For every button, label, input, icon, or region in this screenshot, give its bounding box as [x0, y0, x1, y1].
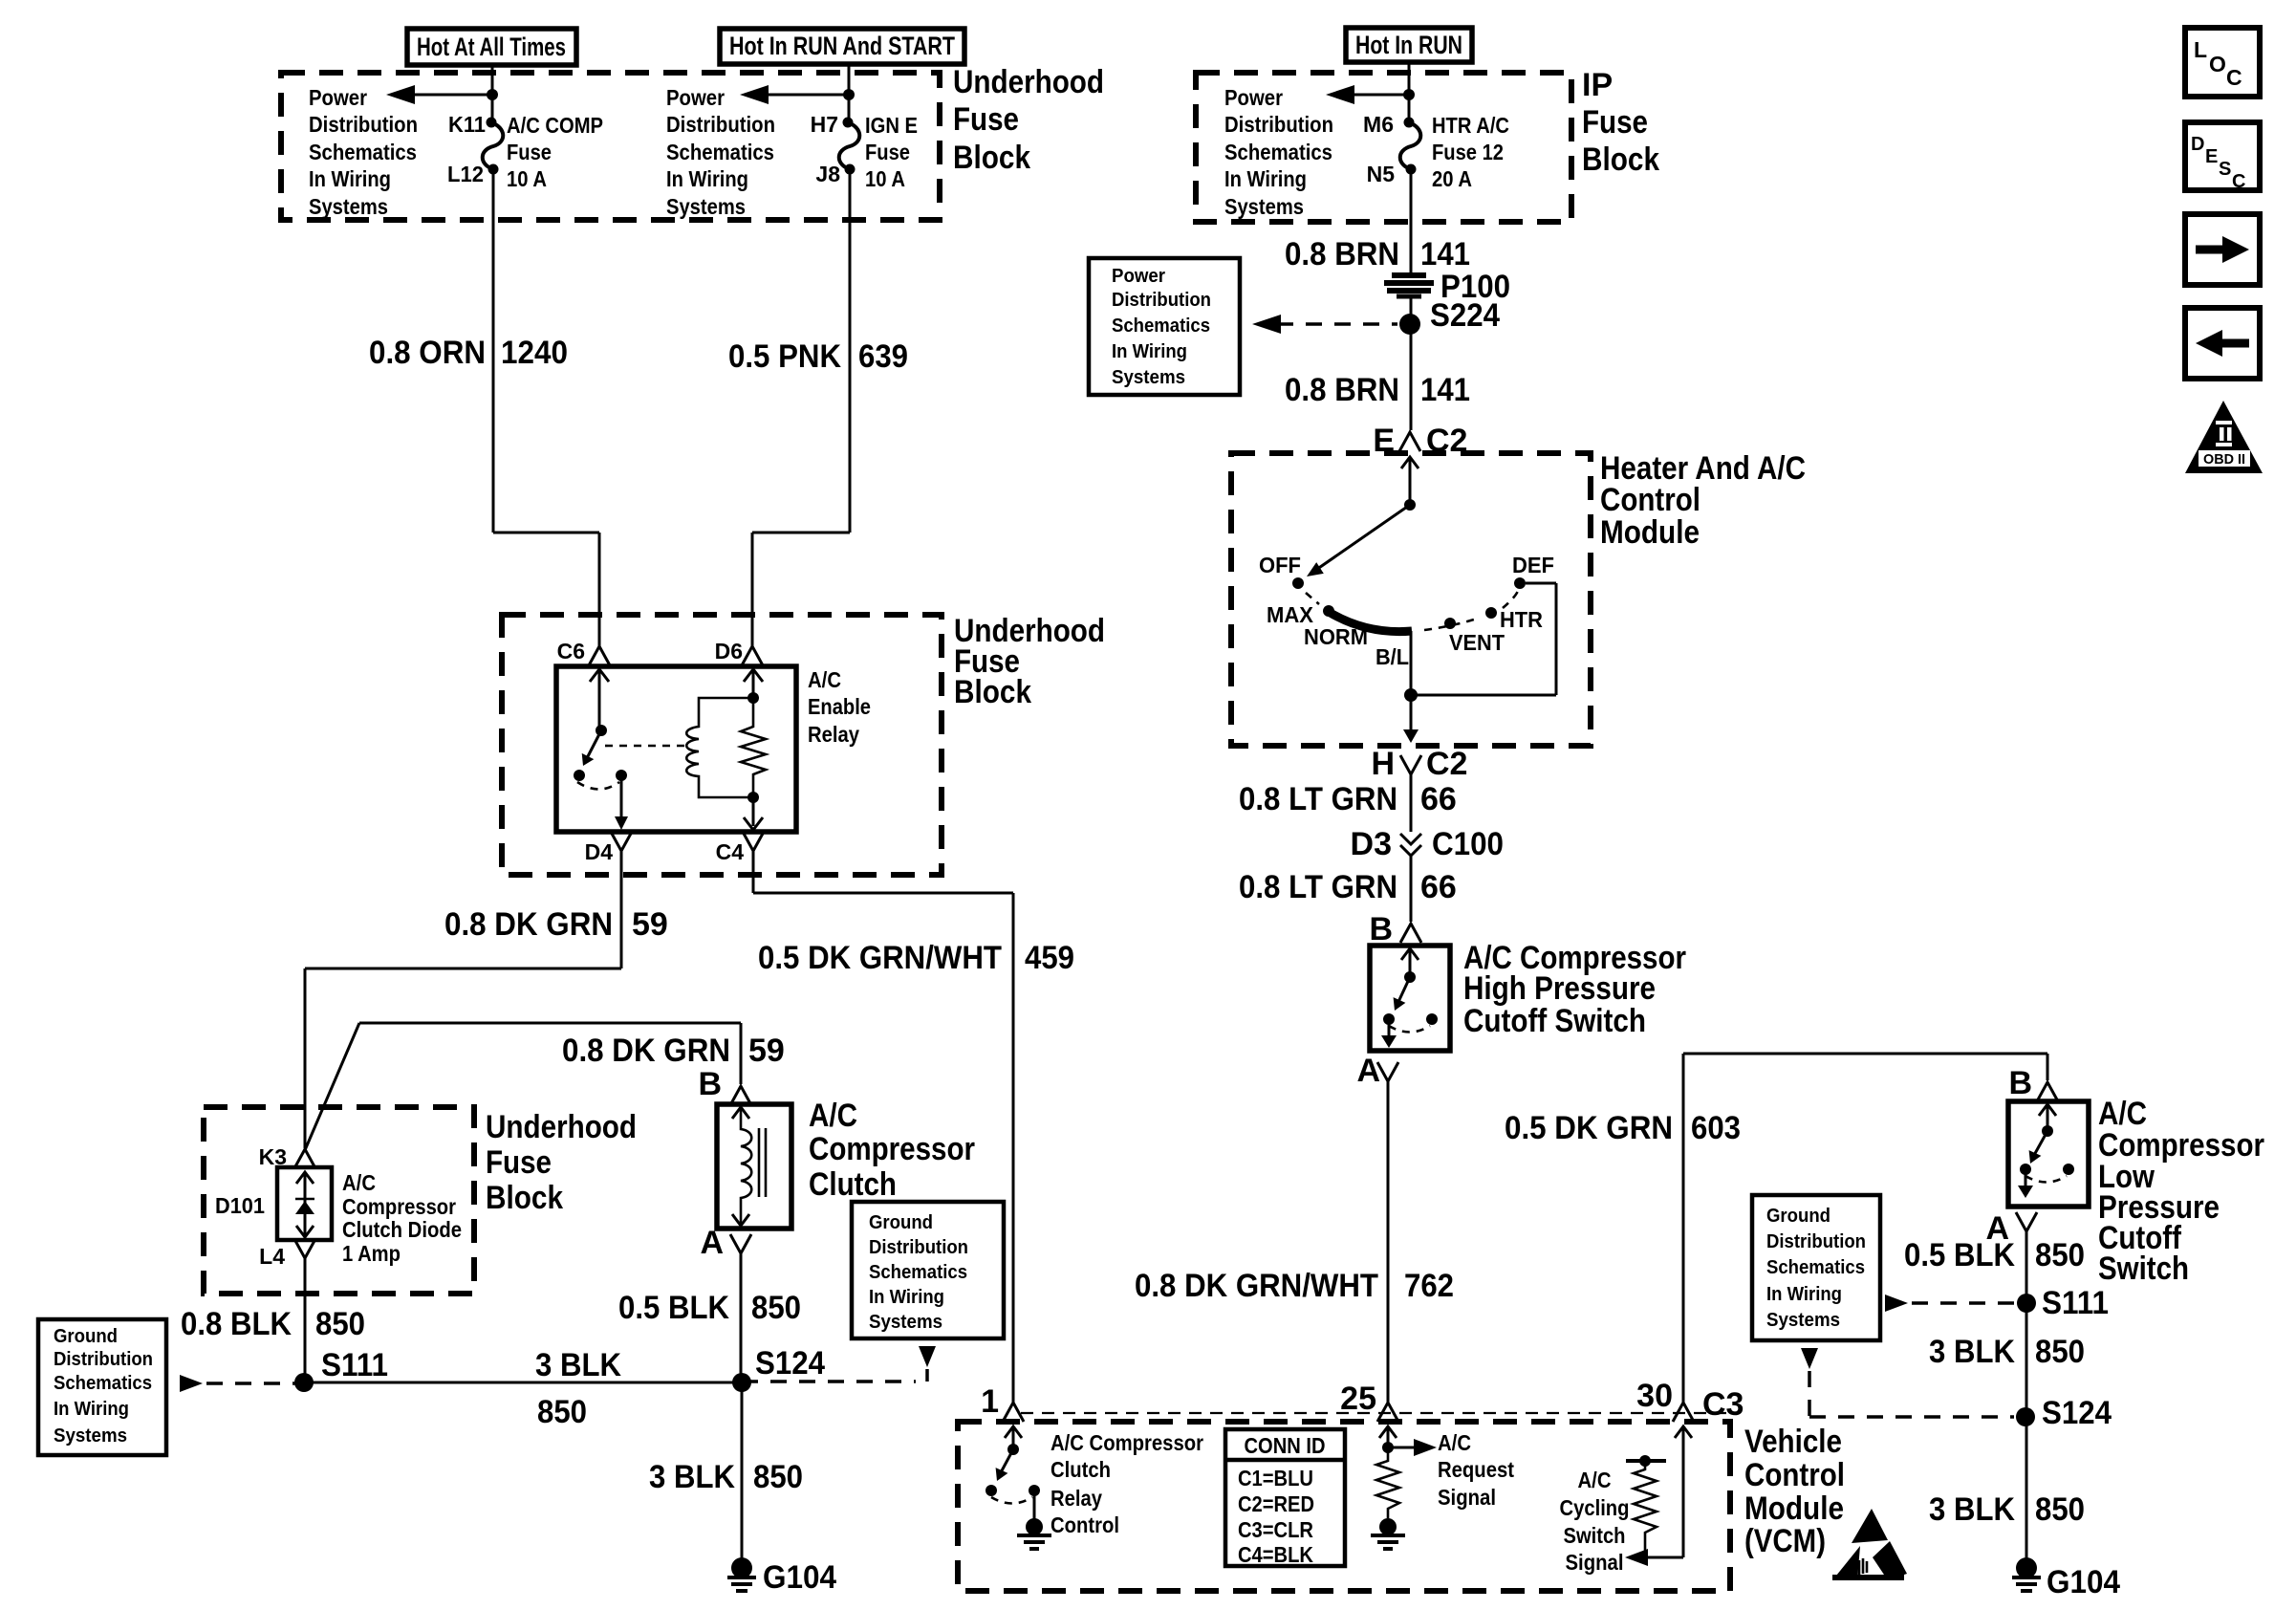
ground distribution box (right)	[1752, 1195, 1880, 1340]
svg-text:Systems: Systems	[1766, 1310, 1840, 1331]
svg-text:0.5 PNK: 0.5 PNK	[728, 338, 841, 375]
svg-text:In Wiring: In Wiring	[1112, 341, 1187, 362]
relay switch contact right	[616, 770, 627, 781]
svg-text:603: 603	[1691, 1110, 1741, 1146]
svg-text:C100: C100	[1432, 826, 1504, 862]
svg-text:In Wiring: In Wiring	[54, 1399, 129, 1420]
VCM A/C request input	[1379, 1426, 1397, 1438]
svg-text:In Wiring: In Wiring	[1224, 166, 1307, 191]
fuse HTR A/C pin M6	[1404, 118, 1415, 128]
wire 0.8 DK GRN/WHT 762 to VCM pin 25	[1387, 1081, 1390, 1403]
connector D4	[611, 832, 632, 851]
VCM connector row dashed line	[1021, 1412, 1726, 1414]
low pressure switch contacts	[2020, 1164, 2031, 1175]
VCM pin 30 C3	[1673, 1403, 1694, 1422]
fuse HTR A/C element	[1400, 122, 1421, 169]
low pressure cutoff switch box	[2008, 1101, 2089, 1207]
svg-text:850: 850	[2035, 1237, 2085, 1273]
svg-text:J8: J8	[815, 162, 840, 186]
svg-text:Fuse: Fuse	[486, 1144, 552, 1181]
svg-text:0.8 DK GRN: 0.8 DK GRN	[444, 906, 613, 943]
connector C6	[589, 646, 610, 665]
svg-text:Compressor: Compressor	[809, 1131, 975, 1167]
svg-text:0.8 LT GRN: 0.8 LT GRN	[1239, 781, 1397, 817]
svg-text:0.8 BRN: 0.8 BRN	[1285, 236, 1399, 272]
svg-text:G104: G104	[763, 1559, 836, 1596]
svg-text:G104: G104	[2047, 1564, 2120, 1600]
svg-text:0.8 BLK: 0.8 BLK	[181, 1306, 292, 1342]
ESD warning triangle	[1852, 1509, 1888, 1543]
svg-text:1 Amp: 1 Amp	[342, 1241, 401, 1266]
grommet P100	[1392, 272, 1426, 278]
svg-text:Request: Request	[1438, 1457, 1514, 1482]
low pressure switch dashed arc	[2025, 1176, 2067, 1183]
VCM pin 30 wire	[1675, 1426, 1692, 1438]
icon OBD II triangle	[2185, 401, 2263, 473]
svg-text:0.8 ORN: 0.8 ORN	[369, 335, 486, 371]
svg-text:Schematics: Schematics	[869, 1262, 967, 1283]
svg-text:B: B	[698, 1066, 722, 1102]
high pressure switch dashed arc	[1389, 1026, 1430, 1033]
underhood fuse block dashed box	[281, 73, 940, 220]
svg-text:Block: Block	[486, 1180, 563, 1216]
svg-text:25: 25	[1340, 1381, 1376, 1417]
splice S124 (right)	[2016, 1407, 2035, 1426]
svg-text:0.8 BRN: 0.8 BRN	[1285, 372, 1399, 408]
svg-text:Control: Control	[1051, 1512, 1119, 1537]
connector E C2	[1399, 432, 1420, 451]
svg-text:Schematics: Schematics	[54, 1373, 152, 1394]
svg-text:Ground: Ground	[54, 1326, 118, 1347]
svg-text:IP: IP	[1582, 67, 1613, 103]
relay output to C4	[752, 797, 755, 826]
svg-text:Schematics: Schematics	[1112, 315, 1210, 337]
clutch core bars	[758, 1128, 761, 1197]
mode dashed arc	[1306, 593, 1319, 604]
connector A (low pressure switch)	[2016, 1212, 2037, 1231]
svg-text:E: E	[2205, 146, 2218, 167]
svg-text:762: 762	[1404, 1268, 1454, 1304]
svg-text:A/C: A/C	[1578, 1468, 1612, 1492]
label box Hot In RUN And START	[720, 29, 964, 64]
svg-text:Ground: Ground	[1766, 1206, 1830, 1227]
label box Hot At All Times	[407, 29, 576, 65]
svg-text:141: 141	[1420, 372, 1470, 408]
connector C4	[743, 832, 764, 851]
svg-text:Fuse: Fuse	[953, 101, 1019, 138]
connector H C2	[1400, 755, 1421, 774]
connector D6	[742, 646, 763, 665]
high pressure switch output	[1388, 1019, 1391, 1044]
svg-text:Distribution: Distribution	[666, 112, 775, 137]
svg-text:Control: Control	[1600, 482, 1700, 518]
dashed arrow left ground box to S111	[180, 1375, 203, 1392]
svg-text:A: A	[700, 1225, 724, 1261]
connector K3	[294, 1149, 315, 1168]
relay node top (coil/resistor)	[747, 692, 759, 704]
svg-text:Signal: Signal	[1566, 1550, 1624, 1575]
svg-text:66: 66	[1420, 869, 1457, 905]
svg-text:0.5 BLK: 0.5 BLK	[618, 1290, 729, 1326]
IP fuse block dashed box	[1196, 73, 1571, 222]
svg-text:OFF: OFF	[1259, 553, 1301, 577]
svg-text:Switch: Switch	[1564, 1523, 1626, 1548]
VCM cycling switch resistor top bar	[1626, 1459, 1666, 1463]
relay node bottom (coil/resistor)	[747, 792, 759, 803]
DEF branch wire	[1411, 694, 1556, 697]
svg-text:Fuse: Fuse	[507, 140, 552, 164]
svg-text:H: H	[1371, 746, 1395, 782]
mode switch pivot dot	[1404, 499, 1416, 511]
low pressure switch blade	[2033, 1131, 2047, 1157]
VCM pin 1	[1003, 1403, 1024, 1422]
svg-text:M6: M6	[1363, 112, 1394, 137]
arrow to power distribution (left)	[386, 85, 415, 104]
relay switch contact left	[574, 770, 585, 781]
svg-text:Systems: Systems	[309, 194, 388, 219]
svg-text:CONN ID: CONN ID	[1245, 1433, 1326, 1458]
wire branch diagonal to K3	[305, 1023, 359, 1150]
wire 0.8 LT GRN 66 (lower)	[1410, 856, 1413, 922]
wire 0.5 DK GRN 603 vertical	[1682, 1054, 1685, 1403]
underhood fuse block dashed box (relay)	[502, 615, 942, 875]
VCM A/C request ground	[1379, 1518, 1397, 1535]
svg-text:0.5 DK GRN/WHT: 0.5 DK GRN/WHT	[758, 940, 1002, 976]
svg-text:A: A	[1356, 1053, 1380, 1089]
svg-text:B: B	[2008, 1065, 2032, 1101]
svg-text:S124: S124	[2042, 1395, 2112, 1431]
relay switch blade	[586, 730, 601, 760]
svg-text:C3=CLR: C3=CLR	[1238, 1517, 1313, 1542]
dashed arrow S224 to power distribution box	[1252, 315, 1281, 334]
svg-text:Distribution: Distribution	[54, 1349, 153, 1370]
svg-text:L: L	[2194, 37, 2207, 62]
VCM A/C request node dot	[1382, 1442, 1394, 1453]
VCM clutch relay dashed arc	[991, 1497, 1032, 1504]
svg-text:Systems: Systems	[666, 194, 746, 219]
mode B/L output wire	[1410, 631, 1413, 695]
svg-text:Compressor: Compressor	[342, 1194, 456, 1219]
svg-text:D: D	[2191, 134, 2204, 155]
underhood fuse block dashed box (diode)	[204, 1107, 474, 1294]
CONN ID table	[1225, 1429, 1345, 1566]
svg-text:In Wiring: In Wiring	[666, 166, 748, 191]
high pressure cutoff switch box	[1370, 946, 1450, 1051]
svg-text:In Wiring: In Wiring	[1766, 1284, 1842, 1305]
svg-text:0.5 DK GRN: 0.5 DK GRN	[1505, 1110, 1673, 1146]
mode position MAX	[1323, 605, 1334, 617]
svg-text:Signal: Signal	[1438, 1485, 1496, 1510]
connector B (high pressure switch)	[1400, 924, 1421, 943]
svg-text:VENT: VENT	[1449, 630, 1505, 655]
svg-text:30: 30	[1636, 1378, 1673, 1414]
svg-text:B: B	[1369, 911, 1393, 947]
svg-text:0.5 BLK: 0.5 BLK	[1904, 1237, 2015, 1273]
svg-text:Distribution: Distribution	[869, 1237, 968, 1258]
relay coil	[686, 698, 753, 797]
svg-text:A/C Compressor: A/C Compressor	[1051, 1430, 1203, 1455]
svg-text:Underhood: Underhood	[486, 1109, 637, 1145]
svg-text:Block: Block	[953, 140, 1030, 176]
svg-text:Clutch Diode: Clutch Diode	[342, 1217, 462, 1242]
connector B (low pressure switch)	[2037, 1082, 2058, 1101]
svg-text:S111: S111	[2042, 1285, 2109, 1321]
high pressure switch pivot dot	[1404, 971, 1416, 983]
wire 0.5 PNK from J8 to relay D6	[849, 169, 852, 533]
svg-text:1240: 1240	[501, 335, 568, 371]
svg-text:3 BLK: 3 BLK	[1929, 1491, 2015, 1528]
mode output wire to H	[1410, 695, 1413, 738]
dashed arrow to right S111	[1885, 1295, 1908, 1312]
svg-text:59: 59	[632, 906, 668, 943]
connector D3 C100	[1400, 834, 1421, 844]
wire 0.8 BRN 141 from N5	[1410, 169, 1413, 274]
splice S224	[1399, 314, 1420, 335]
svg-text:OBD II: OBD II	[2203, 451, 2245, 468]
svg-text:Cycling: Cycling	[1560, 1495, 1630, 1520]
svg-text:HTR: HTR	[1500, 607, 1543, 632]
icon left arrow	[2185, 308, 2260, 379]
svg-text:141: 141	[1420, 236, 1470, 272]
svg-text:Distribution: Distribution	[1112, 290, 1211, 311]
svg-text:C2: C2	[1426, 746, 1467, 782]
high pressure switch input	[1401, 948, 1419, 960]
relay switch pivot	[596, 725, 607, 736]
svg-text:10 A: 10 A	[507, 166, 547, 191]
connector A (high pressure switch)	[1377, 1062, 1398, 1081]
svg-text:639: 639	[858, 338, 908, 375]
relay coil link dashed	[605, 745, 690, 748]
connector A (clutch)	[730, 1234, 751, 1253]
VCM pin 25	[1377, 1403, 1398, 1422]
low pressure switch pivot dot	[2042, 1125, 2053, 1137]
splice S124	[732, 1373, 751, 1392]
relay output to D4	[620, 775, 623, 826]
svg-text:Power: Power	[666, 85, 725, 110]
svg-text:Vehicle: Vehicle	[1744, 1424, 1842, 1460]
svg-text:Clutch: Clutch	[1051, 1457, 1111, 1482]
svg-text:850: 850	[753, 1459, 803, 1495]
mode output node dot	[1404, 688, 1418, 702]
svg-text:10 A: 10 A	[865, 166, 905, 191]
svg-text:Schematics: Schematics	[1224, 140, 1332, 164]
svg-text:59: 59	[748, 1033, 785, 1069]
svg-text:Fuse: Fuse	[1582, 104, 1648, 141]
low pressure switch output	[2025, 1169, 2027, 1194]
arrow to power distribution (right)	[740, 85, 769, 104]
svg-text:C1=BLU: C1=BLU	[1238, 1466, 1313, 1490]
svg-text:L4: L4	[259, 1244, 285, 1269]
svg-text:High Pressure: High Pressure	[1463, 970, 1656, 1007]
VCM dashed box	[958, 1422, 1730, 1591]
diode wire with arrows	[296, 1172, 314, 1184]
svg-text:0.8 DK GRN/WHT: 0.8 DK GRN/WHT	[1135, 1268, 1378, 1304]
splice S111	[294, 1373, 314, 1392]
wire 0.8 BLK 850 to S111	[304, 1258, 307, 1382]
svg-text:K11: K11	[448, 112, 486, 137]
svg-text:3 BLK: 3 BLK	[649, 1459, 735, 1495]
clutch coil	[732, 1107, 749, 1119]
mode position DEF	[1514, 577, 1526, 589]
wire from Hot In RUN And START into fuse block	[848, 64, 851, 122]
svg-text:850: 850	[751, 1290, 801, 1326]
svg-text:66: 66	[1420, 781, 1457, 817]
svg-text:Fuse: Fuse	[865, 140, 910, 164]
wire 0.5 BLK 850 (right)	[2025, 1231, 2028, 1568]
ground G104 (right)	[2016, 1557, 2037, 1578]
diode symbol	[295, 1201, 314, 1214]
svg-text:850: 850	[315, 1306, 365, 1342]
svg-text:A/C COMP: A/C COMP	[507, 113, 603, 138]
svg-text:459: 459	[1025, 940, 1074, 976]
relay switch dashed throw arc	[577, 782, 619, 790]
wire 0.5 DK GRN/WHT 459	[752, 851, 755, 893]
svg-text:Ground: Ground	[869, 1212, 933, 1233]
svg-text:Control: Control	[1744, 1457, 1845, 1493]
mode position VENT	[1444, 618, 1456, 629]
svg-text:3 BLK: 3 BLK	[535, 1347, 621, 1383]
svg-text:In Wiring: In Wiring	[869, 1287, 944, 1308]
relay box A/C Enable Relay	[556, 666, 796, 832]
high pressure switch blade	[1397, 977, 1410, 1004]
high pressure switch contacts	[1383, 1013, 1395, 1025]
connector B (clutch)	[730, 1086, 751, 1105]
wire 0.8 ORN from L12 to relay C6	[492, 169, 495, 533]
svg-text:Power: Power	[1224, 85, 1283, 110]
fuse A/C COMP pin K11	[487, 118, 497, 128]
svg-text:Power: Power	[309, 85, 367, 110]
svg-text:C: C	[2232, 171, 2245, 192]
splice S111 (right)	[2017, 1294, 2036, 1313]
svg-text:C2=RED: C2=RED	[1238, 1491, 1314, 1516]
dashed arrow middle ground box to S124	[919, 1346, 936, 1367]
svg-text:Systems: Systems	[1224, 194, 1304, 219]
VCM cycling switch resistor	[1634, 1461, 1657, 1557]
svg-text:Module: Module	[1744, 1490, 1844, 1527]
ground G104 (left)	[731, 1557, 752, 1578]
svg-text:H7: H7	[811, 112, 838, 137]
svg-text:Hot In RUN And START: Hot In RUN And START	[729, 32, 955, 60]
wire 0.8 LT GRN 66 (upper)	[1410, 774, 1413, 832]
svg-text:D101: D101	[215, 1193, 265, 1218]
svg-text:Distribution: Distribution	[1766, 1231, 1866, 1252]
relay resistor	[741, 698, 766, 797]
mode switch blade to OFF	[1313, 505, 1410, 572]
svg-text:O: O	[2209, 52, 2226, 76]
svg-text:Clutch: Clutch	[809, 1166, 897, 1203]
svg-text:0.8 LT GRN: 0.8 LT GRN	[1239, 869, 1397, 905]
svg-text:IGN E: IGN E	[865, 113, 918, 138]
connector L4	[294, 1239, 315, 1258]
icon LOC	[2185, 28, 2260, 97]
fuse A/C COMP element	[483, 122, 504, 169]
svg-text:C: C	[2226, 65, 2242, 90]
svg-text:C4: C4	[716, 839, 745, 864]
label box Hot In RUN	[1346, 28, 1472, 62]
VCM clutch relay pivot dot	[1007, 1444, 1019, 1455]
fuse IGN E pin H7	[843, 118, 854, 128]
wire from Hot In RUN into IP block	[1408, 62, 1411, 122]
svg-text:Distribution: Distribution	[309, 112, 418, 137]
svg-text:20 A: 20 A	[1432, 166, 1472, 191]
fuse HTR A/C pin N5	[1406, 164, 1417, 175]
wire below grommet	[1410, 298, 1413, 430]
VCM A/C request resistor	[1376, 1453, 1399, 1518]
svg-text:A/C: A/C	[342, 1170, 376, 1195]
svg-text:DEF: DEF	[1512, 553, 1554, 577]
svg-text:Hot In RUN: Hot In RUN	[1355, 31, 1462, 59]
wire 0.5 DK GRN 603 horizontal	[1683, 1053, 2047, 1055]
fuse IGN E pin J8	[845, 164, 856, 175]
svg-text:850: 850	[2035, 1334, 2085, 1370]
svg-text:Schematics: Schematics	[666, 140, 774, 164]
svg-text:Schematics: Schematics	[1766, 1257, 1865, 1278]
VCM cycling switch signal arrow	[1625, 1549, 1648, 1566]
svg-text:Systems: Systems	[54, 1425, 127, 1447]
dashed arrow right ground box to S124 (right)	[1801, 1348, 1818, 1369]
wire from Hot At All Times into fuse block	[491, 65, 494, 122]
svg-text:Power: Power	[1112, 266, 1165, 287]
low pressure switch input	[2039, 1104, 2056, 1116]
wire 0.5 BLK 850 clutch to S124	[740, 1253, 743, 1382]
mode thick wiper arc MAX-NORM-B/L	[1329, 612, 1412, 632]
svg-text:Schematics: Schematics	[309, 140, 417, 164]
wire 0.8 DK GRN 59 from D4	[620, 851, 623, 968]
svg-text:850: 850	[537, 1394, 587, 1430]
svg-text:A/C: A/C	[809, 1098, 857, 1134]
svg-text:S124: S124	[755, 1345, 825, 1382]
arrow to power distribution (IP)	[1326, 85, 1354, 104]
svg-text:Underhood: Underhood	[953, 64, 1104, 100]
fuse A/C COMP pin L12	[488, 164, 499, 175]
svg-text:Enable: Enable	[808, 694, 871, 719]
power distribution box (floating)	[1089, 258, 1240, 395]
icon DESC	[2185, 122, 2260, 190]
fuse IGN E element	[839, 122, 860, 169]
svg-text:850: 850	[2035, 1491, 2085, 1528]
svg-text:B/L: B/L	[1375, 644, 1409, 669]
heater and A/C control module dashed box	[1231, 453, 1591, 746]
svg-text:Hot At All Times: Hot At All Times	[417, 33, 566, 61]
svg-text:S224: S224	[1430, 297, 1500, 334]
svg-text:C6: C6	[557, 639, 585, 664]
svg-text:(VCM): (VCM)	[1744, 1523, 1826, 1559]
svg-text:Switch: Switch	[2098, 1251, 2189, 1287]
ground distribution box (left)	[38, 1319, 166, 1455]
VCM clutch relay contacts	[986, 1485, 997, 1496]
mode position OFF	[1292, 577, 1304, 589]
svg-text:C4=BLK: C4=BLK	[1238, 1542, 1313, 1567]
svg-text:C3: C3	[1702, 1386, 1744, 1423]
svg-text:L12: L12	[447, 162, 484, 186]
svg-text:D4: D4	[585, 839, 614, 864]
ground distribution box (middle)	[852, 1202, 1004, 1338]
relay D6 input wire	[744, 669, 763, 682]
VCM clutch relay ground	[1033, 1490, 1036, 1522]
svg-text:Cutoff Switch: Cutoff Switch	[1463, 1003, 1646, 1039]
svg-text:A/C: A/C	[1438, 1430, 1471, 1455]
svg-text:Block: Block	[954, 674, 1031, 710]
svg-text:Distribution: Distribution	[1224, 112, 1333, 137]
VCM clutch relay blade	[1000, 1449, 1013, 1474]
VCM clutch relay control input	[1005, 1426, 1022, 1438]
relay switch input wire	[590, 669, 609, 682]
svg-text:S: S	[2219, 159, 2231, 180]
wire 3 BLK 850 S111 to S124	[304, 1382, 742, 1384]
diode box D101	[277, 1167, 332, 1240]
svg-text:A/C: A/C	[808, 667, 841, 692]
wire 3 BLK 850 S124 to G104	[741, 1382, 744, 1568]
